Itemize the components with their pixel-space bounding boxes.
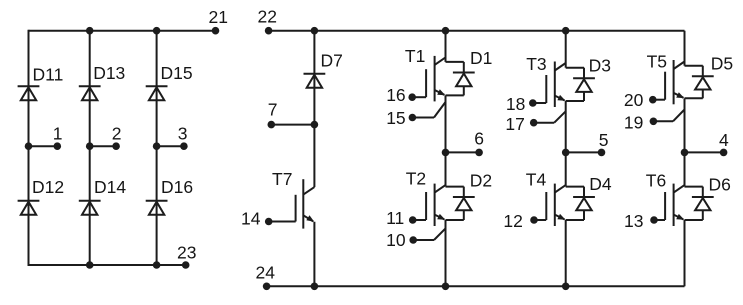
terminal 22 dot	[265, 27, 273, 35]
diode D4 with branch wires	[566, 187, 595, 220]
label T1	[405, 46, 425, 66]
svg-text:T3: T3	[526, 54, 546, 74]
wire T2 gate lead terminal 11	[413, 219, 426, 221]
wire top DC+ bus of inverter from terminal 22	[269, 30, 685, 32]
label 13	[624, 211, 643, 231]
label 21	[209, 7, 228, 27]
wire T7 gate lead from terminal 14	[269, 221, 296, 223]
node 7 dots	[268, 121, 319, 129]
transistor T5 (IGBT upper)	[665, 60, 684, 104]
wire bottom DC- bus of rectifier to terminal 23	[29, 264, 186, 266]
label 15	[386, 108, 405, 128]
svg-text:D14: D14	[94, 177, 126, 197]
svg-text:T6: T6	[646, 170, 666, 190]
terminal 23 dot	[182, 261, 190, 269]
transistor T3 (IGBT upper)	[546, 62, 565, 108]
terminal 14 dot	[265, 218, 273, 226]
wire T2 aux emitter lead terminal 10	[413, 228, 445, 240]
label 18	[506, 94, 525, 114]
svg-text:D6: D6	[709, 174, 731, 194]
svg-text:D1: D1	[470, 48, 492, 68]
wire node 7 stub	[271, 124, 314, 126]
junction dots top bus rectifier	[86, 27, 161, 35]
wire stub node 2	[90, 145, 116, 147]
transistor T2 (IGBT lower)	[426, 184, 445, 226]
label T7	[272, 169, 292, 189]
wire rectifier phase column 1	[28, 30, 30, 266]
terminal 19 dot	[650, 118, 658, 126]
svg-text:D12: D12	[32, 177, 64, 197]
diode D12	[18, 201, 40, 215]
node 6 dots	[442, 149, 483, 157]
transistor T1 (IGBT upper)	[426, 56, 445, 102]
svg-text:T2: T2	[406, 168, 426, 188]
svg-text:12: 12	[503, 211, 522, 231]
svg-text:14: 14	[241, 208, 261, 228]
wire brake branch upper (bus to D7 to node 7)	[313, 31, 315, 125]
wire AC output node 6 stub	[446, 151, 480, 153]
wire T3 gate lead terminal 18	[533, 102, 546, 104]
wire T5 gate lead terminal 20	[653, 99, 665, 101]
node 5 dots	[562, 149, 605, 157]
svg-text:D15: D15	[161, 63, 193, 83]
terminal 11 dot	[409, 216, 417, 224]
diode D7	[304, 74, 326, 88]
wire leg upper collector from DC+ bus	[445, 31, 447, 62]
svg-text:20: 20	[624, 90, 644, 110]
svg-text:D13: D13	[93, 63, 125, 83]
diode D5 with branch wires	[685, 66, 714, 99]
label node 6	[474, 129, 484, 149]
svg-text:21: 21	[209, 7, 228, 27]
diode D15	[146, 86, 168, 100]
wire leg from upper emitter to AC output node	[445, 95, 447, 152]
wire rectifier phase column 3	[156, 31, 158, 265]
diode D3 with branch wires	[566, 68, 595, 101]
terminal 24 dot	[263, 283, 271, 291]
label D6	[709, 174, 731, 194]
svg-text:T5: T5	[647, 51, 667, 71]
svg-text:15: 15	[386, 108, 405, 128]
label T2	[406, 168, 426, 188]
label 24	[256, 263, 276, 283]
label 22	[258, 7, 277, 27]
svg-text:23: 23	[177, 242, 196, 262]
junction dots bottom bus rectifier	[86, 261, 161, 269]
node 3 dots	[153, 142, 188, 150]
wire T6 gate lead terminal 13	[654, 219, 665, 221]
terminal 13 dot	[650, 216, 658, 224]
svg-text:D3: D3	[589, 55, 611, 75]
svg-text:5: 5	[599, 130, 609, 150]
wire T1 aux emitter lead terminal 15	[412, 102, 445, 118]
label node 3	[178, 124, 188, 144]
svg-text:17: 17	[505, 114, 524, 134]
node 1 dots	[25, 142, 61, 150]
transistor T4 (IGBT lower)	[546, 184, 565, 226]
label 20	[624, 90, 644, 110]
label T3	[526, 54, 546, 74]
wire leg lower emitter to DC- bus	[565, 220, 567, 286]
diode D1 with branch wires	[446, 62, 475, 96]
wire leg lower emitter to DC- bus	[684, 220, 686, 286]
wire top DC+ bus of rectifier to terminal 21	[29, 30, 216, 32]
svg-text:7: 7	[268, 99, 278, 119]
wire AC output node 5 stub	[566, 151, 602, 153]
label T5	[647, 51, 667, 71]
label 17	[505, 114, 524, 134]
svg-text:D16: D16	[161, 177, 193, 197]
label node 5	[599, 130, 609, 150]
label 10	[386, 230, 406, 250]
transistor T6 (IGBT lower)	[665, 184, 684, 226]
terminal 17 dot	[530, 119, 538, 127]
label 19	[624, 112, 643, 132]
wire leg lower collector from AC node	[565, 152, 567, 186]
diode D13	[79, 86, 101, 100]
wire T3 aux emitter lead terminal 17	[534, 111, 566, 122]
label D4	[589, 174, 612, 194]
svg-text:D11: D11	[33, 65, 64, 85]
terminal 10 dot	[409, 236, 417, 244]
svg-text:24: 24	[256, 263, 276, 283]
svg-text:19: 19	[624, 112, 643, 132]
svg-text:1: 1	[53, 124, 63, 144]
svg-text:2: 2	[112, 124, 122, 144]
svg-text:D7: D7	[321, 51, 343, 71]
svg-text:T7: T7	[272, 169, 292, 189]
label D2	[470, 170, 492, 190]
svg-text:13: 13	[624, 211, 643, 231]
svg-text:22: 22	[258, 7, 277, 27]
label T4	[526, 170, 547, 190]
wire stub node 1	[29, 145, 58, 147]
node 2 dots	[86, 142, 120, 150]
label 16	[386, 85, 405, 105]
terminal 15 dot	[409, 114, 417, 122]
wire AC output node 4 stub	[685, 151, 724, 153]
label D16	[161, 177, 193, 197]
label 14	[241, 208, 261, 228]
terminal 12 dot	[530, 216, 538, 224]
label D12	[32, 177, 64, 197]
label 11	[386, 208, 404, 228]
label D7	[321, 51, 343, 71]
svg-text:6: 6	[474, 129, 484, 149]
label D14	[94, 177, 126, 197]
terminal 20 dot	[649, 96, 657, 104]
svg-text:16: 16	[386, 85, 405, 105]
label node 1	[53, 124, 63, 144]
label node 2	[112, 124, 122, 144]
wire T7 emitter lead to bottom bus	[313, 222, 315, 286]
label D1	[470, 48, 492, 68]
label node 4	[719, 130, 729, 150]
wire T4 gate lead terminal 12	[534, 219, 546, 221]
terminal 18 dot	[529, 99, 537, 107]
wire bottom DC- bus of inverter from terminal 24	[267, 285, 685, 287]
svg-text:D4: D4	[589, 174, 612, 194]
wire leg from upper emitter to AC output node	[565, 101, 567, 152]
wire T7 collector lead	[313, 125, 315, 188]
svg-text:T4: T4	[526, 170, 547, 190]
wire T1 gate lead terminal 16	[412, 96, 426, 98]
label T6	[646, 170, 666, 190]
diode D6 with branch wires	[685, 187, 714, 220]
wire leg upper collector from DC+ bus	[565, 31, 567, 68]
wire leg from upper emitter to AC output node	[684, 98, 686, 152]
label D15	[161, 63, 193, 83]
svg-text:3: 3	[178, 124, 188, 144]
junction dots bottom DC- bus	[311, 283, 570, 291]
diode D2 with branch wires	[446, 187, 475, 220]
wire stub node 3	[157, 145, 184, 147]
diode D16	[146, 201, 168, 215]
wire leg lower emitter to DC- bus	[445, 220, 447, 286]
svg-text:T1: T1	[405, 46, 425, 66]
svg-text:4: 4	[719, 130, 729, 150]
svg-text:10: 10	[386, 230, 406, 250]
label 12	[503, 211, 522, 231]
wire leg upper collector from DC+ bus	[684, 31, 686, 66]
terminal 16 dot	[408, 93, 416, 101]
wire leg lower collector from AC node	[445, 152, 447, 186]
label D11	[33, 65, 64, 85]
wire rectifier phase column 2	[89, 31, 91, 265]
diode D14	[79, 201, 101, 215]
transistor T7 (IGBT)	[296, 179, 315, 228]
label D5	[711, 54, 733, 74]
label node 7	[268, 99, 278, 119]
svg-text:11: 11	[386, 208, 404, 228]
wire leg lower collector from AC node	[684, 152, 686, 186]
svg-text:18: 18	[506, 94, 525, 114]
node 4 dots	[681, 149, 728, 157]
wire T5 aux emitter lead terminal 19	[653, 110, 684, 122]
diode D11	[18, 86, 40, 100]
junction dots top DC+ bus	[311, 27, 570, 35]
label 23	[177, 242, 196, 262]
label D13	[93, 63, 125, 83]
label D3	[589, 55, 611, 75]
svg-text:D5: D5	[711, 54, 733, 74]
terminal 21 dot	[212, 27, 220, 35]
svg-text:D2: D2	[470, 170, 492, 190]
